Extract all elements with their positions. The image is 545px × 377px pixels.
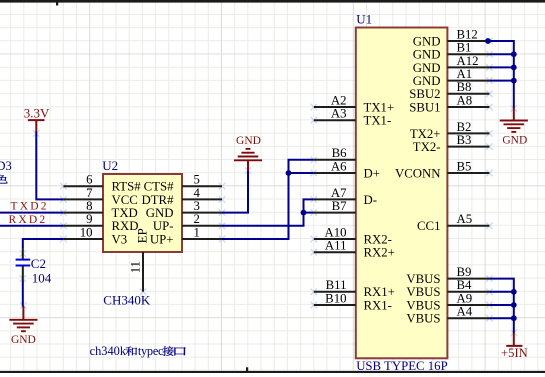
junction A1/GND [511, 78, 517, 84]
wire U1 A1 to GND net [489, 80, 513, 82]
svg-text:D3: D3 [0, 159, 12, 173]
power symbol GND (right of U1) [500, 107, 528, 146]
svg-text:DTR#: DTR# [142, 193, 175, 207]
comment CH340K [103, 293, 151, 308]
net label D3 (clipped at left edge) [0, 159, 12, 173]
U1 pin A10 (RX2-) [314, 225, 392, 246]
U1 pin B11 (RX1+) [314, 278, 395, 299]
svg-text:ch340k: ch340k [90, 344, 127, 358]
svg-text:CC1: CC1 [417, 219, 440, 233]
svg-text:2: 2 [194, 212, 200, 226]
pin hotspot grip marks [20, 38, 517, 336]
U2 pin 2 (UP-) [153, 212, 222, 233]
U1 pin A7 (D-) [314, 186, 377, 207]
svg-text:U2: U2 [102, 158, 118, 173]
value 104 [32, 271, 52, 286]
svg-text:10: 10 [80, 225, 93, 239]
svg-text:GND: GND [146, 206, 174, 220]
svg-text:TX2-: TX2- [413, 140, 441, 154]
svg-text:B6: B6 [332, 146, 348, 160]
svg-text:A5: A5 [457, 212, 473, 226]
svg-text:VCC: VCC [112, 193, 138, 207]
wire net TXD2 to U2 pin8 [0, 212, 63, 214]
wire A6 branch of D+ net [289, 172, 314, 174]
U2 pin 5 (CTS#) [144, 173, 222, 194]
wire U2 pin1 (UP+) to D+ net [222, 160, 314, 239]
junction A4/VBUS [511, 315, 517, 321]
svg-text:VBUS: VBUS [406, 285, 440, 299]
wire U1 B12 GND net to GND symbol [488, 41, 514, 108]
U2 pin 10 (V3) [63, 225, 127, 246]
op-amp U1 body (USB TYPEC 16P connector) [356, 28, 448, 359]
U1 pin A2 (TX1+) [314, 93, 394, 114]
svg-text:GND: GND [413, 61, 441, 75]
wire net RXD2 to U2 pin9 [0, 225, 63, 227]
svg-text:A3: A3 [331, 107, 347, 121]
svg-text:RX2-: RX2- [364, 232, 392, 246]
U2 pin 7 (VCC) [63, 186, 137, 207]
U1 pin B2 (TX2+) [410, 120, 490, 141]
svg-text:TX2+: TX2+ [410, 127, 441, 141]
svg-text:RX2+: RX2+ [364, 246, 395, 260]
svg-text:C2: C2 [31, 256, 46, 271]
svg-text:A10: A10 [324, 225, 346, 239]
U1 pin B4 (VBUS) [406, 278, 489, 299]
designator U1 [356, 12, 372, 27]
svg-text:V3: V3 [112, 232, 128, 246]
wire U1 A9 to VBUS net [489, 304, 513, 306]
power symbol 3.3V [24, 106, 50, 132]
U1 pin A4 (VBUS) [406, 305, 489, 326]
svg-text:GND: GND [413, 74, 441, 88]
svg-text:B9: B9 [457, 265, 472, 279]
wire U1 A12 to GND net [489, 66, 513, 68]
svg-text:A11: A11 [325, 239, 347, 253]
svg-text:A1: A1 [457, 67, 473, 81]
svg-text:B10: B10 [325, 291, 346, 305]
U2 pin 8 (TXD) [63, 199, 137, 220]
svg-text:5: 5 [194, 173, 200, 187]
U1 pin A5 (CC1) [417, 212, 489, 233]
U2 pin 3 (GND) [146, 199, 222, 220]
svg-text:A12: A12 [457, 54, 479, 68]
wire B7 branch of D- net [304, 212, 314, 214]
svg-text:RXD2: RXD2 [9, 214, 48, 226]
svg-text:RX1+: RX1+ [364, 285, 395, 299]
U1 pin B7 [314, 199, 356, 213]
svg-text:+5IN: +5IN [501, 346, 528, 360]
svg-text:3: 3 [194, 199, 200, 213]
wire U1 B9 VBUS net to +5IN [489, 279, 513, 333]
svg-text:1: 1 [194, 225, 200, 239]
wire U2 pin10 (V3) to C2 [23, 239, 64, 248]
svg-text:B2: B2 [457, 120, 472, 134]
wire U1 B1 to GND net [489, 53, 513, 55]
junction on B12 GND wire [485, 38, 491, 44]
svg-text:EP: EP [135, 228, 150, 243]
svg-text:UP-: UP- [153, 219, 174, 233]
U1 pin A1 (GND) [413, 67, 490, 88]
capacitor C2 [16, 247, 31, 281]
U1 pin B5 (VCONN) [395, 159, 489, 180]
junction B4/VBUS [511, 289, 517, 295]
svg-text:VBUS: VBUS [406, 298, 440, 312]
svg-text:TX1+: TX1+ [364, 100, 395, 114]
svg-text:SBU2: SBU2 [409, 87, 440, 101]
U1 pin A6 (D+) [314, 159, 380, 180]
svg-text:UP+: UP+ [150, 232, 174, 246]
svg-text:8: 8 [86, 199, 92, 213]
wire U1 B4 to VBUS net [489, 291, 513, 293]
svg-text:A2: A2 [331, 93, 347, 107]
svg-text:CH340K: CH340K [103, 293, 151, 308]
svg-text:4: 4 [194, 186, 201, 200]
svg-text:B3: B3 [457, 133, 472, 147]
svg-text:D+: D+ [364, 166, 380, 180]
net label RXD2 [9, 214, 48, 226]
U1 pin A11 (RX2+) [314, 239, 395, 260]
U1 pin A3 (TX1-) [314, 107, 391, 128]
svg-text:CTS#: CTS# [144, 180, 174, 194]
svg-text:B8: B8 [457, 80, 472, 94]
svg-text:B5: B5 [457, 159, 472, 173]
svg-text:A9: A9 [457, 291, 473, 305]
U1 pin B6 [314, 146, 356, 160]
svg-text:typec: typec [138, 344, 164, 358]
svg-text:A6: A6 [331, 159, 347, 173]
svg-text:6: 6 [86, 173, 93, 187]
junction A6 D+ net [286, 170, 292, 176]
svg-text:GND: GND [11, 334, 36, 346]
junction B1/GND [511, 51, 517, 57]
comment USB TYPEC 16P [356, 359, 448, 373]
wire 3.3V rail to U2 pin7 (VCC) [36, 132, 63, 199]
wire U2 pin3 to GND symbol [222, 171, 248, 212]
svg-text:U1: U1 [356, 12, 372, 27]
U1 pin B10 (RX1-) [314, 291, 392, 312]
junction A12/GND [511, 65, 517, 71]
svg-text:RTS#: RTS# [112, 180, 142, 194]
svg-text:TX1-: TX1- [364, 114, 392, 128]
U2 pin 1 (UP+) [150, 225, 222, 246]
wire U2 pin2 (UP-) to D- net [222, 199, 314, 225]
U1 pin B3 (TX2-) [413, 133, 490, 154]
svg-text:D-: D- [364, 193, 378, 207]
svg-text:B4: B4 [457, 278, 473, 292]
designator C2 [31, 256, 46, 271]
U1 pin B1 (GND) [413, 41, 490, 62]
svg-text:GND: GND [502, 135, 527, 147]
svg-text:104: 104 [32, 271, 52, 286]
svg-text:11: 11 [129, 261, 143, 273]
power symbol GND (above U2 pin3 net) [234, 135, 262, 172]
U2 pin 11 (EP) [129, 228, 150, 291]
net label TXD2 [11, 201, 49, 213]
U2 pin 9 (RXD) [63, 212, 138, 233]
svg-text:B1: B1 [457, 41, 472, 55]
svg-text:GND: GND [236, 135, 261, 147]
svg-text:TXD2: TXD2 [11, 201, 49, 213]
junction A9/VBUS [511, 302, 517, 308]
svg-text:SBU1: SBU1 [409, 100, 440, 114]
wire U1 A4 to VBUS net [489, 317, 513, 319]
svg-text:GND: GND [413, 34, 441, 48]
U1 pin B12 (GND) [413, 27, 490, 48]
svg-text:VBUS: VBUS [406, 272, 440, 286]
svg-text:VBUS: VBUS [406, 312, 440, 326]
svg-text:RX1-: RX1- [364, 298, 392, 312]
U1 pin A12 (GND) [413, 54, 490, 75]
wire C2 to GND [22, 281, 24, 307]
svg-text:GND: GND [413, 48, 441, 62]
U2 pin 4 (DTR#) [142, 186, 223, 207]
svg-text:B7: B7 [332, 199, 348, 213]
U1 pin A9 (VBUS) [406, 291, 489, 312]
power symbol GND (below C2) [9, 306, 37, 346]
svg-text:A4: A4 [457, 305, 473, 319]
svg-text:A7: A7 [331, 186, 347, 200]
svg-text:USB TYPEC 16P: USB TYPEC 16P [356, 359, 448, 373]
U1 pin B8 (SBU2) [409, 80, 489, 101]
U1 pin B9 (VBUS) [406, 265, 489, 286]
title text ch340k和typec接口 [90, 344, 186, 358]
svg-text:B11: B11 [326, 278, 347, 292]
U1 pin A8 (SBU1) [409, 93, 489, 114]
designator U2 [102, 158, 118, 173]
junction B7 D- net [301, 210, 307, 216]
op-amp U2 body (CH340K) [103, 174, 182, 252]
power symbol +5IN [501, 333, 528, 361]
svg-text:TXD: TXD [112, 206, 138, 220]
svg-text:9: 9 [86, 212, 92, 226]
svg-text:B12: B12 [457, 27, 478, 41]
svg-text:A8: A8 [457, 93, 473, 107]
U2 pin 6 (RTS#) [63, 173, 141, 194]
svg-text:7: 7 [86, 186, 93, 200]
svg-text:VCONN: VCONN [395, 166, 441, 180]
svg-text:3.3V: 3.3V [24, 106, 50, 121]
text fragment 色 (clipped at left edge) [0, 174, 8, 183]
